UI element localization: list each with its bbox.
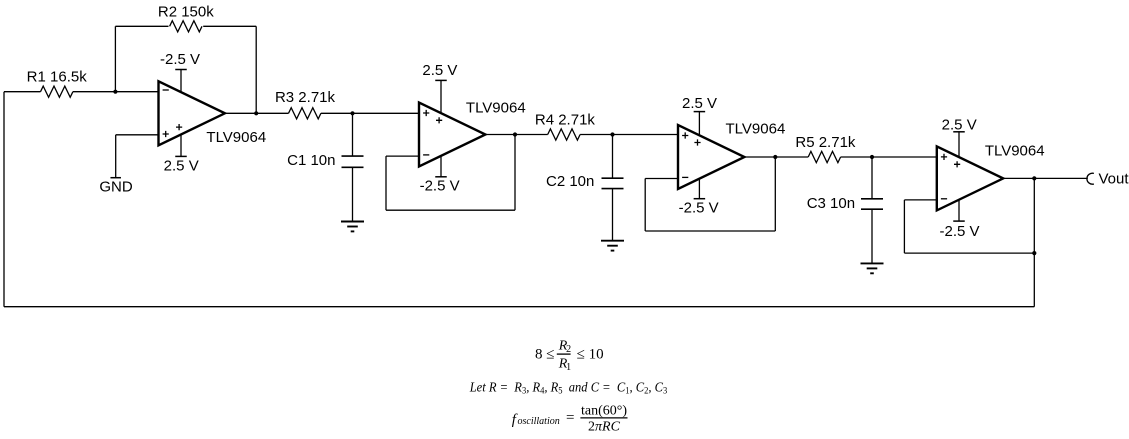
ground bbox=[341, 221, 364, 223]
resistor R1 bbox=[41, 86, 73, 97]
svg-text:TLV9064: TLV9064 bbox=[726, 121, 786, 138]
svg-text:-2.5 V: -2.5 V bbox=[160, 51, 200, 68]
wire bbox=[904, 252, 1034, 254]
svg-text:Vout: Vout bbox=[1099, 170, 1129, 187]
wire bbox=[871, 157, 873, 199]
op-amp U4 inverting input - bbox=[941, 198, 947, 200]
wire bbox=[4, 91, 41, 93]
svg-text:R1 16.5k: R1 16.5k bbox=[27, 69, 88, 86]
ground GND bbox=[110, 177, 121, 179]
node Vout off-page connector bbox=[1087, 173, 1094, 184]
op-amp U4 bbox=[937, 146, 1003, 210]
svg-text:TLV9064: TLV9064 bbox=[466, 99, 526, 116]
op-amp U4 V+ pin bbox=[958, 132, 960, 157]
capacitor C1 bbox=[342, 155, 364, 157]
wire bbox=[612, 189, 614, 241]
wire bbox=[580, 134, 678, 136]
wire bbox=[255, 26, 257, 113]
wire bbox=[903, 200, 905, 253]
svg-text:1: 1 bbox=[566, 362, 571, 373]
capacitor C2 bbox=[602, 177, 624, 179]
wire bbox=[114, 26, 116, 91]
wire bbox=[645, 178, 678, 180]
resistor R4 bbox=[548, 129, 580, 140]
op-amp U4 noninverting input + bbox=[941, 154, 947, 160]
op-amp U3 V- pin bbox=[698, 179, 700, 199]
op-amp U4 V- pin bbox=[958, 200, 960, 221]
wire bbox=[115, 25, 168, 27]
svg-text:=: = bbox=[566, 410, 574, 426]
op-amp U1 inverting input - bbox=[163, 89, 169, 91]
svg-text:Let R = R3, R4, R5 and C =: Let R = R3, R4, R5 and C = C1, C2, C3 bbox=[469, 380, 668, 396]
svg-text:2.5 V: 2.5 V bbox=[164, 157, 199, 174]
svg-text:R5 2.71k: R5 2.71k bbox=[795, 134, 856, 151]
wire bbox=[386, 155, 419, 157]
op-amp U3 positive supply marker bbox=[694, 139, 700, 145]
wire bbox=[352, 113, 354, 156]
svg-text:≤ 10: ≤ 10 bbox=[577, 347, 604, 363]
wire bbox=[73, 91, 159, 93]
op-amp U2 noninverting input + bbox=[423, 110, 429, 116]
wire bbox=[485, 134, 547, 136]
op-amp U2 inverting input - bbox=[423, 154, 429, 156]
wire bbox=[871, 209, 873, 263]
svg-text:TLV9064: TLV9064 bbox=[985, 143, 1045, 160]
op-amp U1 bbox=[159, 81, 225, 145]
op-amp U1 positive supply marker bbox=[176, 124, 182, 130]
svg-text:R2 150k: R2 150k bbox=[158, 3, 214, 20]
svg-text:-2.5 V: -2.5 V bbox=[679, 200, 719, 217]
op-amp U3 bbox=[678, 125, 744, 189]
wire bbox=[1033, 178, 1035, 306]
node A3 output junction bbox=[773, 155, 777, 159]
node R4-C2 junction bbox=[610, 132, 614, 136]
node R5-C3 junction bbox=[870, 155, 874, 159]
op-amp U3 inverting input - bbox=[682, 176, 688, 178]
node A1 output junction bbox=[254, 111, 258, 115]
svg-text:tan(60°): tan(60°) bbox=[581, 404, 627, 419]
svg-text:2.5 V: 2.5 V bbox=[942, 116, 977, 133]
ground bbox=[601, 240, 624, 242]
svg-text:8 ≤: 8 ≤ bbox=[535, 347, 554, 363]
wire bbox=[4, 306, 1034, 308]
op-amp U1 V+ pin bbox=[180, 134, 182, 156]
node A2 output junction bbox=[513, 132, 517, 136]
wire bbox=[744, 156, 808, 158]
svg-text:R3 2.71k: R3 2.71k bbox=[275, 89, 336, 106]
capacitor C3 bbox=[861, 198, 883, 200]
svg-text:C1 10n: C1 10n bbox=[287, 152, 335, 169]
wire bbox=[514, 135, 516, 211]
wire bbox=[385, 156, 387, 210]
svg-text:-2.5 V: -2.5 V bbox=[420, 178, 460, 195]
resistor R2 bbox=[170, 21, 202, 32]
wire bbox=[3, 92, 5, 307]
wire bbox=[774, 157, 776, 231]
wire bbox=[1003, 177, 1088, 179]
wire bbox=[386, 209, 515, 211]
svg-text:-2.5 V: -2.5 V bbox=[939, 223, 979, 240]
svg-text:GND: GND bbox=[99, 179, 133, 196]
wire bbox=[116, 134, 159, 136]
wire bbox=[612, 135, 614, 179]
svg-text:C2 10n: C2 10n bbox=[546, 173, 594, 190]
resistor R5 bbox=[808, 151, 840, 162]
svg-text:C3 10n: C3 10n bbox=[807, 195, 855, 212]
svg-text:2.5 V: 2.5 V bbox=[682, 95, 717, 112]
op-amp U2 V- pin bbox=[440, 156, 442, 177]
resistor R3 bbox=[289, 108, 321, 119]
op-amp U2 V+ pin bbox=[440, 80, 442, 113]
wire bbox=[225, 112, 289, 114]
wire bbox=[321, 112, 419, 114]
node feedback junction bbox=[1032, 251, 1036, 255]
svg-text:2πRC: 2πRC bbox=[588, 420, 621, 435]
op-amp U2 positive supply marker bbox=[436, 117, 442, 123]
node A4 output junction bbox=[1032, 176, 1036, 180]
wire bbox=[645, 230, 775, 232]
ground bbox=[861, 262, 884, 264]
wire bbox=[904, 199, 936, 201]
wire bbox=[203, 25, 256, 27]
op-amp U1 V- pin bbox=[180, 70, 182, 93]
op-amp U4 positive supply marker bbox=[954, 161, 960, 167]
wire bbox=[841, 156, 937, 158]
svg-text:oscillation: oscillation bbox=[518, 416, 560, 427]
op-amp U2 bbox=[419, 103, 485, 167]
svg-text:2: 2 bbox=[566, 344, 571, 355]
op-amp U3 noninverting input + bbox=[682, 132, 688, 138]
svg-text:R4 2.71k: R4 2.71k bbox=[535, 111, 596, 128]
wire bbox=[644, 179, 646, 232]
op-amp U3 V+ pin bbox=[698, 112, 700, 136]
op-amp U1 noninverting input + bbox=[163, 131, 169, 137]
wire bbox=[352, 167, 354, 221]
node R3-C1 junction bbox=[350, 111, 354, 115]
svg-text:2.5 V: 2.5 V bbox=[422, 62, 457, 79]
svg-text:TLV9064: TLV9064 bbox=[206, 129, 266, 146]
wire bbox=[115, 135, 117, 178]
node A1 inverting input junction bbox=[113, 90, 117, 94]
